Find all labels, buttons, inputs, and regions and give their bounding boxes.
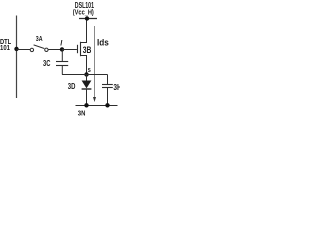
svg-text:101: 101 (0, 43, 10, 52)
wire DTL bus vertical (16, 16, 18, 99)
diode 3D anode lead (86, 75, 88, 81)
transistor 3B drain lead (81, 19, 87, 43)
svg-text:3A: 3A (36, 34, 43, 43)
diode 3D cathode bar (82, 88, 92, 90)
capacitor 3H bottom plate (102, 87, 113, 89)
wire bottom rail (76, 105, 118, 107)
capacitor 3C bottom lead (61, 66, 63, 75)
node rail 3H junction (105, 103, 109, 107)
capacitor 3H top lead (107, 75, 109, 85)
node junction on DTL bus (14, 47, 18, 51)
wire switch to gate node (48, 49, 62, 51)
svg-text:s: s (88, 65, 91, 74)
current arrow Ids head (93, 97, 96, 102)
svg-text:Ids: Ids (97, 36, 109, 47)
svg-text:3H: 3H (113, 83, 120, 92)
wire source horizontal (62, 74, 108, 76)
capacitor 3C bottom plate (56, 65, 68, 67)
switch 3A left contact (30, 48, 33, 51)
switch 3A right contact (45, 48, 48, 51)
svg-text:3N: 3N (78, 108, 86, 117)
transistor 3B source lead (81, 56, 87, 75)
switch 3A blade (34, 45, 45, 49)
supply terminal bar Vcc_H (79, 18, 97, 20)
svg-text:(Vcc_H): (Vcc_H) (73, 8, 94, 17)
capacitor 3C top plate (56, 61, 68, 63)
transistor 3B channel bar (80, 42, 82, 56)
svg-text:3C: 3C (43, 59, 51, 68)
node on supply terminal (85, 16, 89, 20)
transistor 3B gate bar (77, 45, 79, 53)
current arrow Ids line (94, 26, 96, 99)
node source junction (84, 72, 88, 76)
wire gate node to gate (62, 49, 77, 51)
capacitor 3H top plate (102, 84, 113, 86)
svg-text:3D: 3D (68, 82, 76, 91)
capacitor 3H bottom lead (107, 88, 109, 106)
diode 3D triangle (82, 81, 92, 89)
node gate junction (60, 47, 64, 51)
svg-text:l: l (60, 38, 63, 47)
capacitor 3C top lead (61, 50, 63, 63)
wire bus to switch (17, 49, 31, 51)
diode 3D cathode lead (86, 89, 88, 106)
node rail diode junction (84, 103, 88, 107)
svg-text:3B: 3B (83, 45, 92, 55)
